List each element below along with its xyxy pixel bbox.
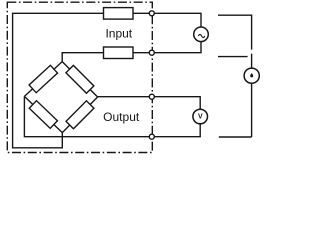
- wire detector branch vertical lower: [251, 83, 253, 137]
- terminal 2: [149, 50, 154, 55]
- strain gauge R4 (lower-right arm): [66, 101, 94, 129]
- wire terminal 3 to voltmeter: [154, 97, 200, 110]
- svg-text:Input: Input: [105, 26, 132, 40]
- wire input lead 2: top node to resistor: [62, 53, 103, 62]
- wire input lead 1 top: left wire to resistor: [13, 13, 104, 148]
- wire bridge arm bottom-left: [24, 96, 62, 132]
- wire output: left node down and right to terminal 4: [24, 96, 149, 136]
- ac source sine symbol: [198, 34, 205, 37]
- resistor R_lead1 (top input lead): [104, 8, 134, 20]
- terminal 4: [149, 134, 154, 139]
- wire bridge arm bottom-right: [62, 97, 97, 133]
- wire detector branch vertical upper: [251, 54, 253, 69]
- wire bridge arm top-left: [24, 62, 62, 97]
- ac source circle: [194, 27, 209, 42]
- wire bridge arm top-right: [62, 62, 97, 97]
- wire ac source to terminal 2: [154, 42, 201, 53]
- enclosure dash-dot boundary: [7, 2, 152, 152]
- svg-text:Output: Output: [103, 110, 140, 124]
- strain gauge R2 (upper-right arm): [66, 65, 94, 93]
- voltmeter circle V: [193, 109, 208, 124]
- wire detector branch bottom: [219, 136, 252, 138]
- detector circle D: [244, 68, 259, 83]
- strain gauge R3 (lower-left arm): [29, 101, 57, 129]
- wire detector branch top: [218, 15, 252, 49]
- wire resistor to terminal 1: [133, 12, 149, 14]
- wire open stub mid: [218, 56, 248, 58]
- detector dot: [250, 73, 253, 77]
- wire terminal 1 to ac source: [154, 13, 201, 27]
- resistor R_lead2 (lower input lead): [104, 47, 134, 59]
- strain gauge R1 (upper-left arm): [29, 65, 57, 92]
- svg-text:V: V: [198, 114, 203, 121]
- wire resistor to terminal 2: [133, 52, 149, 54]
- wire output: right node to terminal 3: [98, 96, 150, 98]
- wire voltmeter to terminal 4: [154, 124, 200, 137]
- terminal 3: [149, 94, 154, 99]
- terminal 1: [149, 11, 154, 16]
